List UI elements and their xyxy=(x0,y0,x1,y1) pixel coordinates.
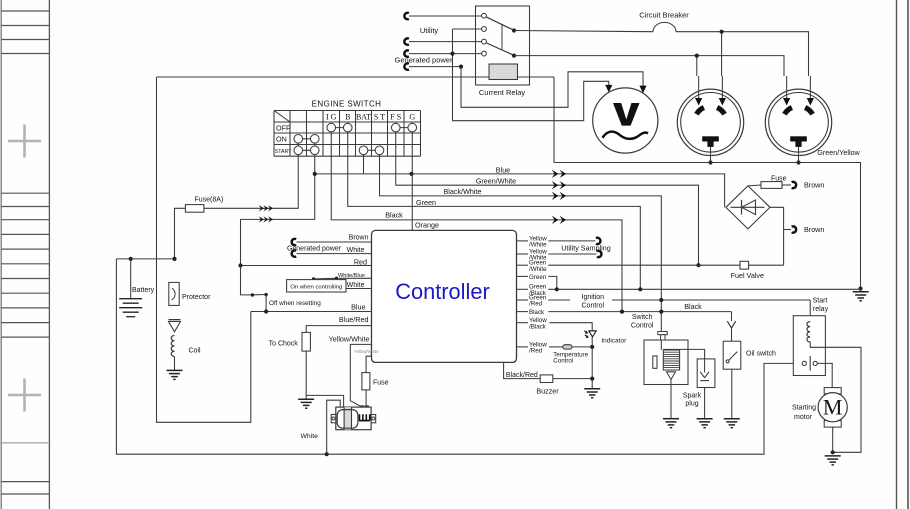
svg-text:/Red: /Red xyxy=(529,301,543,308)
svg-text:Generated power: Generated power xyxy=(287,246,342,253)
svg-text:Current Relay: Current Relay xyxy=(479,88,526,97)
svg-text:ON: ON xyxy=(276,135,287,144)
svg-text:Battery: Battery xyxy=(132,287,155,294)
svg-text:ENGINE SWITCH: ENGINE SWITCH xyxy=(312,100,382,109)
svg-text:relay: relay xyxy=(813,306,829,313)
svg-text:Black: Black xyxy=(684,302,702,311)
svg-text:Control: Control xyxy=(582,303,605,310)
svg-text:Control: Control xyxy=(553,358,573,365)
svg-text:Fuse: Fuse xyxy=(771,175,787,182)
svg-text:Brown: Brown xyxy=(804,225,824,234)
svg-text:Generated power: Generated power xyxy=(395,56,453,65)
svg-text:plug: plug xyxy=(685,401,698,408)
svg-text:Green/White: Green/White xyxy=(476,176,516,185)
svg-text:Yellow/White: Yellow/White xyxy=(354,349,379,354)
svg-text:Green: Green xyxy=(529,274,547,281)
svg-text:Oil switch: Oil switch xyxy=(746,351,776,358)
svg-text:F S: F S xyxy=(390,113,401,122)
svg-text:To Chock: To Chock xyxy=(269,340,299,347)
svg-text:Circuit Breaker: Circuit Breaker xyxy=(639,11,689,20)
svg-text:S T: S T xyxy=(374,113,385,122)
svg-text:M: M xyxy=(823,395,843,420)
svg-text:Fuel Valve: Fuel Valve xyxy=(731,271,764,280)
svg-text:Controller: Controller xyxy=(395,279,490,304)
svg-text:Black/White: Black/White xyxy=(444,187,482,196)
svg-text:Blue: Blue xyxy=(496,165,510,174)
svg-text:Black: Black xyxy=(385,210,403,219)
svg-text:White: White xyxy=(347,282,365,289)
svg-text:/White: /White xyxy=(529,266,547,273)
svg-text:Fuse(8A): Fuse(8A) xyxy=(195,197,224,204)
svg-text:I G: I G xyxy=(326,113,337,122)
svg-text:BAT: BAT xyxy=(356,113,371,122)
svg-text:G: G xyxy=(409,113,415,122)
svg-text:Protector: Protector xyxy=(182,294,211,301)
svg-text:/Red: /Red xyxy=(529,348,543,355)
svg-text:/Black: /Black xyxy=(529,323,547,330)
svg-text:START: START xyxy=(275,149,292,155)
svg-text:Utility: Utility xyxy=(420,26,439,35)
svg-text:Utility Sampling: Utility Sampling xyxy=(561,243,611,252)
svg-text:Fuse: Fuse xyxy=(373,380,389,387)
svg-text:OFF: OFF xyxy=(276,123,291,132)
svg-text:Indicator: Indicator xyxy=(601,337,627,344)
svg-text:Buzzer: Buzzer xyxy=(536,386,559,395)
svg-text:Green/Yellow: Green/Yellow xyxy=(817,148,860,157)
svg-text:Brown: Brown xyxy=(349,235,369,242)
svg-text:Brown: Brown xyxy=(804,180,824,189)
svg-text:On when controlling: On when controlling xyxy=(290,285,342,291)
svg-text:Coil: Coil xyxy=(189,348,202,355)
svg-text:motor: motor xyxy=(794,414,813,421)
svg-text:White/Blue: White/Blue xyxy=(338,273,365,279)
svg-text:White: White xyxy=(347,247,365,254)
svg-text:Blue/Red: Blue/Red xyxy=(339,315,369,324)
svg-text:Off when resetting: Off when resetting xyxy=(269,300,321,307)
svg-text:Ignition: Ignition xyxy=(582,294,605,301)
svg-text:Control: Control xyxy=(631,323,654,330)
svg-text:B: B xyxy=(345,113,350,122)
svg-text:Black: Black xyxy=(529,309,545,316)
svg-text:Start: Start xyxy=(813,298,828,305)
svg-text:White: White xyxy=(301,433,319,440)
svg-text:Red: Red xyxy=(354,257,367,266)
svg-text:Blue: Blue xyxy=(351,303,365,312)
svg-text:Switch: Switch xyxy=(632,314,653,321)
svg-text:Spark: Spark xyxy=(683,392,702,399)
svg-text:Orange: Orange xyxy=(415,221,439,230)
svg-text:Starting: Starting xyxy=(792,405,816,412)
svg-text:Green: Green xyxy=(416,198,436,207)
svg-text:Black/Red: Black/Red xyxy=(506,372,538,379)
svg-text:Yellow/White: Yellow/White xyxy=(329,334,370,343)
